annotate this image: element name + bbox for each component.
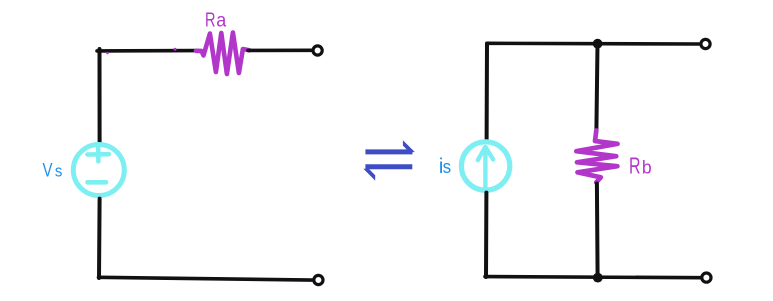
wire left vertical lower (right circuit): [484, 193, 488, 277]
resistor R1 (Ra) zigzag: [196, 33, 249, 75]
voltage source V1 circle: [73, 145, 124, 196]
wire left vertical upper (left circuit): [98, 49, 102, 142]
terminal (open) top of left circuit: [313, 46, 322, 55]
svg-text:s: s: [55, 162, 63, 180]
junction node top (right circuit): [593, 39, 603, 49]
resistor R2 (Rb) vertical zigzag: [576, 131, 617, 183]
current source I1 circle: [461, 142, 509, 190]
equilibrium arrows bottom harpoon: [364, 164, 413, 180]
terminal (open) bottom of right circuit: [702, 273, 711, 282]
svg-text:s: s: [443, 157, 452, 177]
label Vs: [43, 159, 63, 181]
wire middle branch lower (right circuit): [595, 184, 600, 278]
voltage source plus sign: [88, 148, 109, 161]
terminal (open) bottom of left circuit: [314, 275, 323, 284]
svg-text:b: b: [642, 157, 652, 178]
wire top-left segment (left circuit): [97, 49, 196, 53]
wire bottom (left circuit): [99, 277, 313, 280]
stray ink mark on top wire: [106, 52, 109, 55]
value label Ra: [205, 10, 227, 32]
current source arrow: [478, 147, 493, 187]
svg-text:R: R: [629, 153, 641, 179]
label is: [439, 155, 451, 178]
wire middle branch upper (right circuit): [596, 44, 597, 131]
svg-text:V: V: [43, 159, 53, 181]
wire bottom (right circuit): [485, 277, 702, 278]
wire left vertical lower (left circuit): [97, 199, 102, 278]
wire top-right segment (left circuit): [248, 48, 312, 52]
equilibrium arrows (source transformation symbol) top harpoon: [365, 140, 414, 154]
svg-text:a: a: [216, 11, 226, 32]
svg-text:R: R: [205, 10, 216, 32]
stray ink mark on top wire 2: [174, 48, 177, 51]
wire top (right circuit): [487, 41, 699, 45]
value label Rb: [629, 153, 652, 179]
voltage source minus sign: [88, 180, 107, 185]
junction node bottom (right circuit): [593, 273, 603, 283]
wire left vertical upper (right circuit): [485, 44, 489, 141]
terminal (open) top of right circuit: [701, 39, 710, 48]
